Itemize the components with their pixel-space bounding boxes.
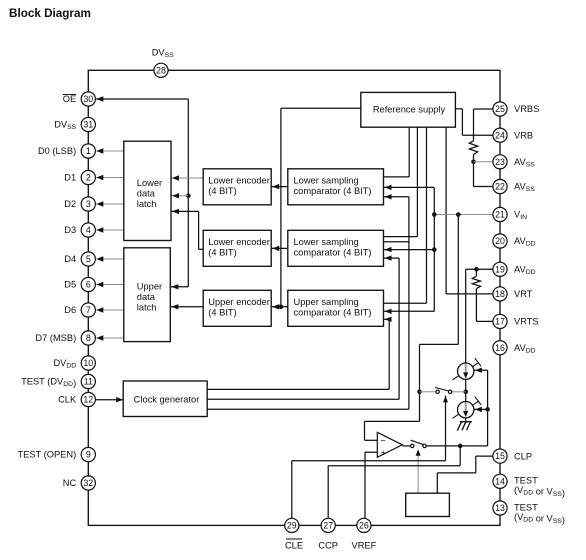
wire: VIN arrow into comparator row1 — [384, 186, 435, 188]
svg-text:VRTS: VRTS — [514, 317, 539, 327]
svg-text:31: 31 — [83, 120, 93, 130]
wire: D0 output from lower data latch — [96, 150, 124, 152]
svg-text:comparator (4 BIT): comparator (4 BIT) — [294, 307, 372, 317]
pin 16 — [493, 341, 507, 355]
pin 25 — [493, 102, 507, 116]
svg-text:1: 1 — [86, 146, 91, 156]
wire: comparator row2 to encoder row2 arrow — [271, 247, 288, 249]
wire: arrow into current source I1 — [474, 369, 487, 371]
svg-text:D7 (MSB): D7 (MSB) — [35, 333, 76, 343]
wire: control from test box to switch S2 — [417, 455, 419, 493]
wire: reference supply bus R2 to comparator row2 — [416, 127, 418, 236]
node: junction on row3 arrow line — [279, 305, 284, 310]
svg-text:26: 26 — [359, 521, 369, 531]
block: Upper encoder row3 — [203, 290, 271, 326]
svg-text:D2: D2 — [64, 199, 76, 209]
block: test control box — [406, 493, 450, 516]
svg-text:25: 25 — [495, 104, 505, 114]
wire: clock arrow into comparator row3 — [384, 318, 390, 320]
wire: D2 output from lower data latch — [96, 203, 124, 205]
node: VIN junction at x=458 — [456, 212, 461, 217]
wire: pin19 branch down to current source I1 — [465, 269, 467, 363]
svg-text:(4 BIT): (4 BIT) — [208, 307, 236, 317]
svg-text:30: 30 — [83, 94, 93, 104]
svg-text:VRT: VRT — [514, 289, 533, 299]
pin 2 — [81, 170, 95, 184]
svg-text:CCP: CCP — [318, 540, 338, 550]
svg-text:2: 2 — [86, 173, 91, 183]
svg-text:TEST: TEST — [514, 476, 538, 486]
node: CCP junction on op-amp output line — [458, 444, 463, 449]
arrowhead: OE output to pin 30 — [96, 96, 103, 101]
svg-text:17: 17 — [495, 317, 505, 327]
svg-text:data: data — [137, 188, 156, 198]
svg-text:CLK: CLK — [58, 395, 77, 405]
wire: current source stack and clamp node — [465, 379, 467, 401]
switch S1 clamp switch contacts — [436, 390, 439, 393]
node: OE tap to lower data latch — [186, 194, 191, 199]
wire: resistor to pin 22 AVss — [473, 154, 475, 186]
svg-text:D5: D5 — [64, 280, 76, 290]
wire: junction down to resistor RT — [475, 269, 477, 276]
block: Lower sampling comparator row2 — [288, 230, 384, 266]
wire: lower encoder row2 to lower data latch staircase — [171, 210, 199, 212]
pin 27 — [321, 518, 335, 532]
svg-text:TEST: TEST — [514, 502, 538, 512]
pin 24 — [493, 128, 507, 142]
block: Lower data latch — [124, 141, 171, 240]
pin 10 — [81, 356, 95, 370]
node: clamp switch node junction — [417, 390, 422, 395]
svg-text:4: 4 — [86, 225, 91, 235]
current source I2 — [453, 401, 479, 418]
pin 23 — [493, 155, 507, 169]
wire: lower encoder row1 to lower data latch — [171, 177, 203, 179]
svg-text:7: 7 — [86, 305, 91, 315]
wire: tap to pin 23 AVss — [474, 161, 494, 163]
svg-text:+: + — [381, 448, 386, 458]
svg-text:21: 21 — [495, 210, 505, 220]
pin 30 — [81, 92, 95, 106]
svg-text:−: − — [381, 435, 386, 445]
pin 4 — [81, 223, 95, 237]
svg-text:32: 32 — [83, 478, 93, 488]
wire: VIN arrow into comparator row2 — [384, 249, 435, 251]
wire: VIN branch down to clamp network — [457, 215, 459, 345]
svg-text:Lower sampling: Lower sampling — [294, 175, 359, 185]
pin 13 — [493, 501, 507, 515]
svg-text:5: 5 — [86, 254, 91, 264]
block: Reference supply — [361, 92, 456, 127]
svg-text:Lower: Lower — [137, 178, 162, 188]
svg-text:(4 BIT): (4 BIT) — [208, 247, 236, 257]
op-amp U1 — [377, 432, 402, 457]
wire: reference supply bus R3 to comparator row3 — [426, 127, 428, 303]
pin 6 — [81, 277, 95, 291]
svg-text:NC: NC — [63, 478, 77, 488]
wire: D1 output from lower data latch — [96, 177, 124, 179]
wire: pin 25 VRBS to ladder bottom resistor — [474, 108, 494, 110]
node: VIN junction at x=434 — [432, 212, 437, 217]
op-amp U1 output to switch S2 — [402, 445, 410, 447]
svg-text:D0 (LSB): D0 (LSB) — [38, 146, 76, 156]
wire: CLK arrow into clock generator — [95, 399, 123, 401]
pin 26 — [357, 518, 371, 532]
block: Lower sampling comparator row1 — [288, 169, 384, 205]
svg-text:16: 16 — [495, 343, 505, 353]
svg-text:9: 9 — [86, 450, 91, 460]
node: AVss tap junction — [471, 160, 476, 165]
block: Lower encoder row1 — [203, 169, 271, 205]
svg-text:Upper sampling: Upper sampling — [294, 297, 359, 307]
svg-text:29: 29 — [287, 521, 297, 531]
switch S2 contacts — [411, 444, 414, 447]
resistor RB (VRB ladder bottom) — [469, 141, 477, 155]
svg-text:3: 3 — [86, 199, 91, 209]
svg-text:data: data — [137, 292, 156, 302]
pin 1 — [81, 144, 95, 158]
wire: reference supply right edge to pin 24 VRB — [456, 108, 463, 110]
svg-text:Block Diagram: Block Diagram — [9, 7, 91, 20]
wire: CLE control to switch S1 — [445, 396, 447, 461]
block: Upper sampling comparator row3 — [288, 290, 384, 326]
wire: VIN arrow into comparator row3 — [384, 310, 435, 312]
chip outline border — [88, 70, 500, 525]
svg-text:14: 14 — [495, 476, 505, 486]
block: Upper data latch — [124, 248, 171, 342]
wire: reference supply bus R1 to comparator row1 — [408, 127, 410, 177]
block: Clock generator — [123, 381, 207, 417]
wire: OE into lower data latch — [171, 195, 188, 197]
wire: resistor RT down to pin 17 VRTS — [475, 289, 477, 322]
svg-text:28: 28 — [156, 65, 166, 75]
svg-text:VRB: VRB — [514, 130, 533, 140]
node: junction at current source I2 control — [485, 407, 490, 412]
pin 3 — [81, 197, 95, 211]
pin 11 — [81, 374, 95, 388]
svg-text:Upper: Upper — [137, 281, 162, 291]
pin 12 — [81, 392, 95, 406]
wire: D4 output from upper data latch — [96, 258, 124, 260]
wire: pin 29 CLE up and across — [291, 461, 293, 519]
svg-text:comparator (4 BIT): comparator (4 BIT) — [294, 186, 372, 196]
wire: CCP junction down — [459, 446, 461, 466]
wire: arrow into current source I2 — [474, 408, 487, 410]
pin 22 — [493, 179, 507, 193]
node: ladder top resistor junction — [474, 267, 479, 272]
svg-text:D3: D3 — [64, 225, 76, 235]
node: VIN bus junction row2 — [432, 247, 437, 252]
node: clamp node between current sources — [463, 390, 468, 395]
ground symbol — [460, 421, 472, 423]
svg-text:OE: OE — [63, 94, 76, 104]
wire: clock generator output 2 to comparator row2 — [207, 398, 399, 400]
svg-text:Upper encoder: Upper encoder — [208, 297, 270, 307]
switch S1 lever — [435, 387, 449, 391]
wire: comparator row1 to encoder row1 arrow — [271, 186, 288, 188]
block: Lower encoder row2 — [203, 230, 271, 266]
svg-text:Clock generator: Clock generator — [134, 394, 200, 404]
svg-text:18: 18 — [495, 289, 505, 299]
wire: VIN from pin 21 — [434, 214, 493, 216]
svg-text:(4 BIT): (4 BIT) — [208, 186, 236, 196]
svg-text:12: 12 — [83, 395, 93, 405]
svg-text:D1: D1 — [64, 173, 76, 183]
wire: pin 15 CLP to test box — [476, 455, 493, 457]
wire: D6 output from upper data latch — [96, 309, 124, 311]
pin 19 — [493, 262, 507, 276]
wire: reference supply bus R4 to pin 18 VRT — [445, 127, 447, 294]
svg-text:23: 23 — [495, 157, 505, 167]
svg-text:D4: D4 — [64, 254, 76, 264]
pin 15 — [493, 449, 507, 463]
wire: comparator row3 to encoder row3 arrow — [271, 306, 288, 308]
resistor RT (VRT ladder top) — [472, 276, 480, 288]
wire: pin 27 CCP up and across — [327, 466, 329, 519]
wire: VIN vertical bus — [433, 187, 435, 311]
svg-text:Lower sampling: Lower sampling — [294, 237, 359, 247]
wire: D5 output from upper data latch — [96, 284, 124, 286]
pin 29 — [285, 518, 299, 532]
wire: D3 output from lower data latch — [96, 229, 124, 231]
svg-text:8: 8 — [86, 333, 91, 343]
svg-text:11: 11 — [84, 377, 93, 387]
pin 18 — [493, 287, 507, 301]
svg-text:15: 15 — [495, 451, 505, 461]
svg-text:13: 13 — [495, 503, 505, 513]
svg-text:Lower encoder: Lower encoder — [208, 175, 270, 185]
wire: pin 26 VREF up to op-amp non-inverting input — [364, 452, 366, 518]
wire: feedback into op-amp inverting input — [365, 420, 420, 422]
svg-text:Reference supply: Reference supply — [373, 104, 446, 114]
pin 5 — [81, 252, 95, 266]
wire: OE into upper data latch — [170, 286, 188, 288]
wire: OE vertical bus to latches — [187, 99, 189, 287]
svg-text:TEST (OPEN): TEST (OPEN) — [17, 450, 76, 460]
wire: clamp switch right segment — [452, 391, 466, 393]
current source I1 — [453, 362, 479, 379]
svg-text:comparator (4 BIT): comparator (4 BIT) — [294, 247, 372, 257]
pin 9 — [81, 447, 95, 461]
pin 17 — [493, 314, 507, 328]
wire: D7 output from upper data latch — [96, 337, 124, 339]
svg-text:19: 19 — [495, 264, 505, 274]
pin 32 — [81, 476, 95, 490]
svg-text:latch: latch — [137, 302, 157, 312]
wire: clock generator output 3 to comparator row3 — [207, 388, 389, 390]
pin 28 — [154, 63, 168, 77]
svg-text:6: 6 — [86, 280, 91, 290]
svg-text:22: 22 — [495, 182, 505, 192]
pin 7 — [81, 303, 95, 317]
svg-text:VRBS: VRBS — [514, 104, 539, 114]
switch S2 lever — [411, 440, 424, 445]
wire: pin 19 AVdd line to current source — [466, 268, 494, 270]
wire: clock arrow into comparator row2 — [384, 257, 400, 259]
svg-text:20: 20 — [495, 236, 505, 246]
svg-text:Lower encoder: Lower encoder — [208, 237, 270, 247]
pin 21 — [493, 207, 507, 221]
wire: clock arrow into comparator row1 — [384, 196, 409, 198]
wire: switch S2 to current-source control node — [427, 445, 488, 447]
pin 14 — [493, 474, 507, 488]
svg-text:VREF: VREF — [352, 540, 377, 550]
wire: reference tap 2 into comparator row2 — [384, 241, 409, 243]
svg-text:CLP: CLP — [514, 451, 532, 461]
wire: reference supply left tap down to row3 node — [281, 107, 361, 109]
svg-text:24: 24 — [495, 130, 505, 140]
svg-text:D6: D6 — [64, 305, 76, 315]
wire: upper encoder row3 to upper data latch — [170, 306, 203, 308]
wire: clamp switch left segment — [420, 391, 436, 393]
svg-text:CLE: CLE — [285, 540, 303, 550]
svg-text:27: 27 — [323, 521, 333, 531]
pin 20 — [493, 234, 507, 248]
wire: clock generator output 1 to comparator row1 — [207, 408, 409, 410]
wire: current source I2 to ground — [465, 418, 467, 422]
pin 31 — [81, 117, 95, 131]
wire: control line from op-amp output node to current sources — [487, 370, 489, 446]
svg-text:latch: latch — [137, 199, 157, 209]
pin 8 — [81, 331, 95, 345]
wire: OE line from pin 30 to vertical bus — [95, 98, 188, 100]
svg-text:10: 10 — [83, 358, 93, 368]
